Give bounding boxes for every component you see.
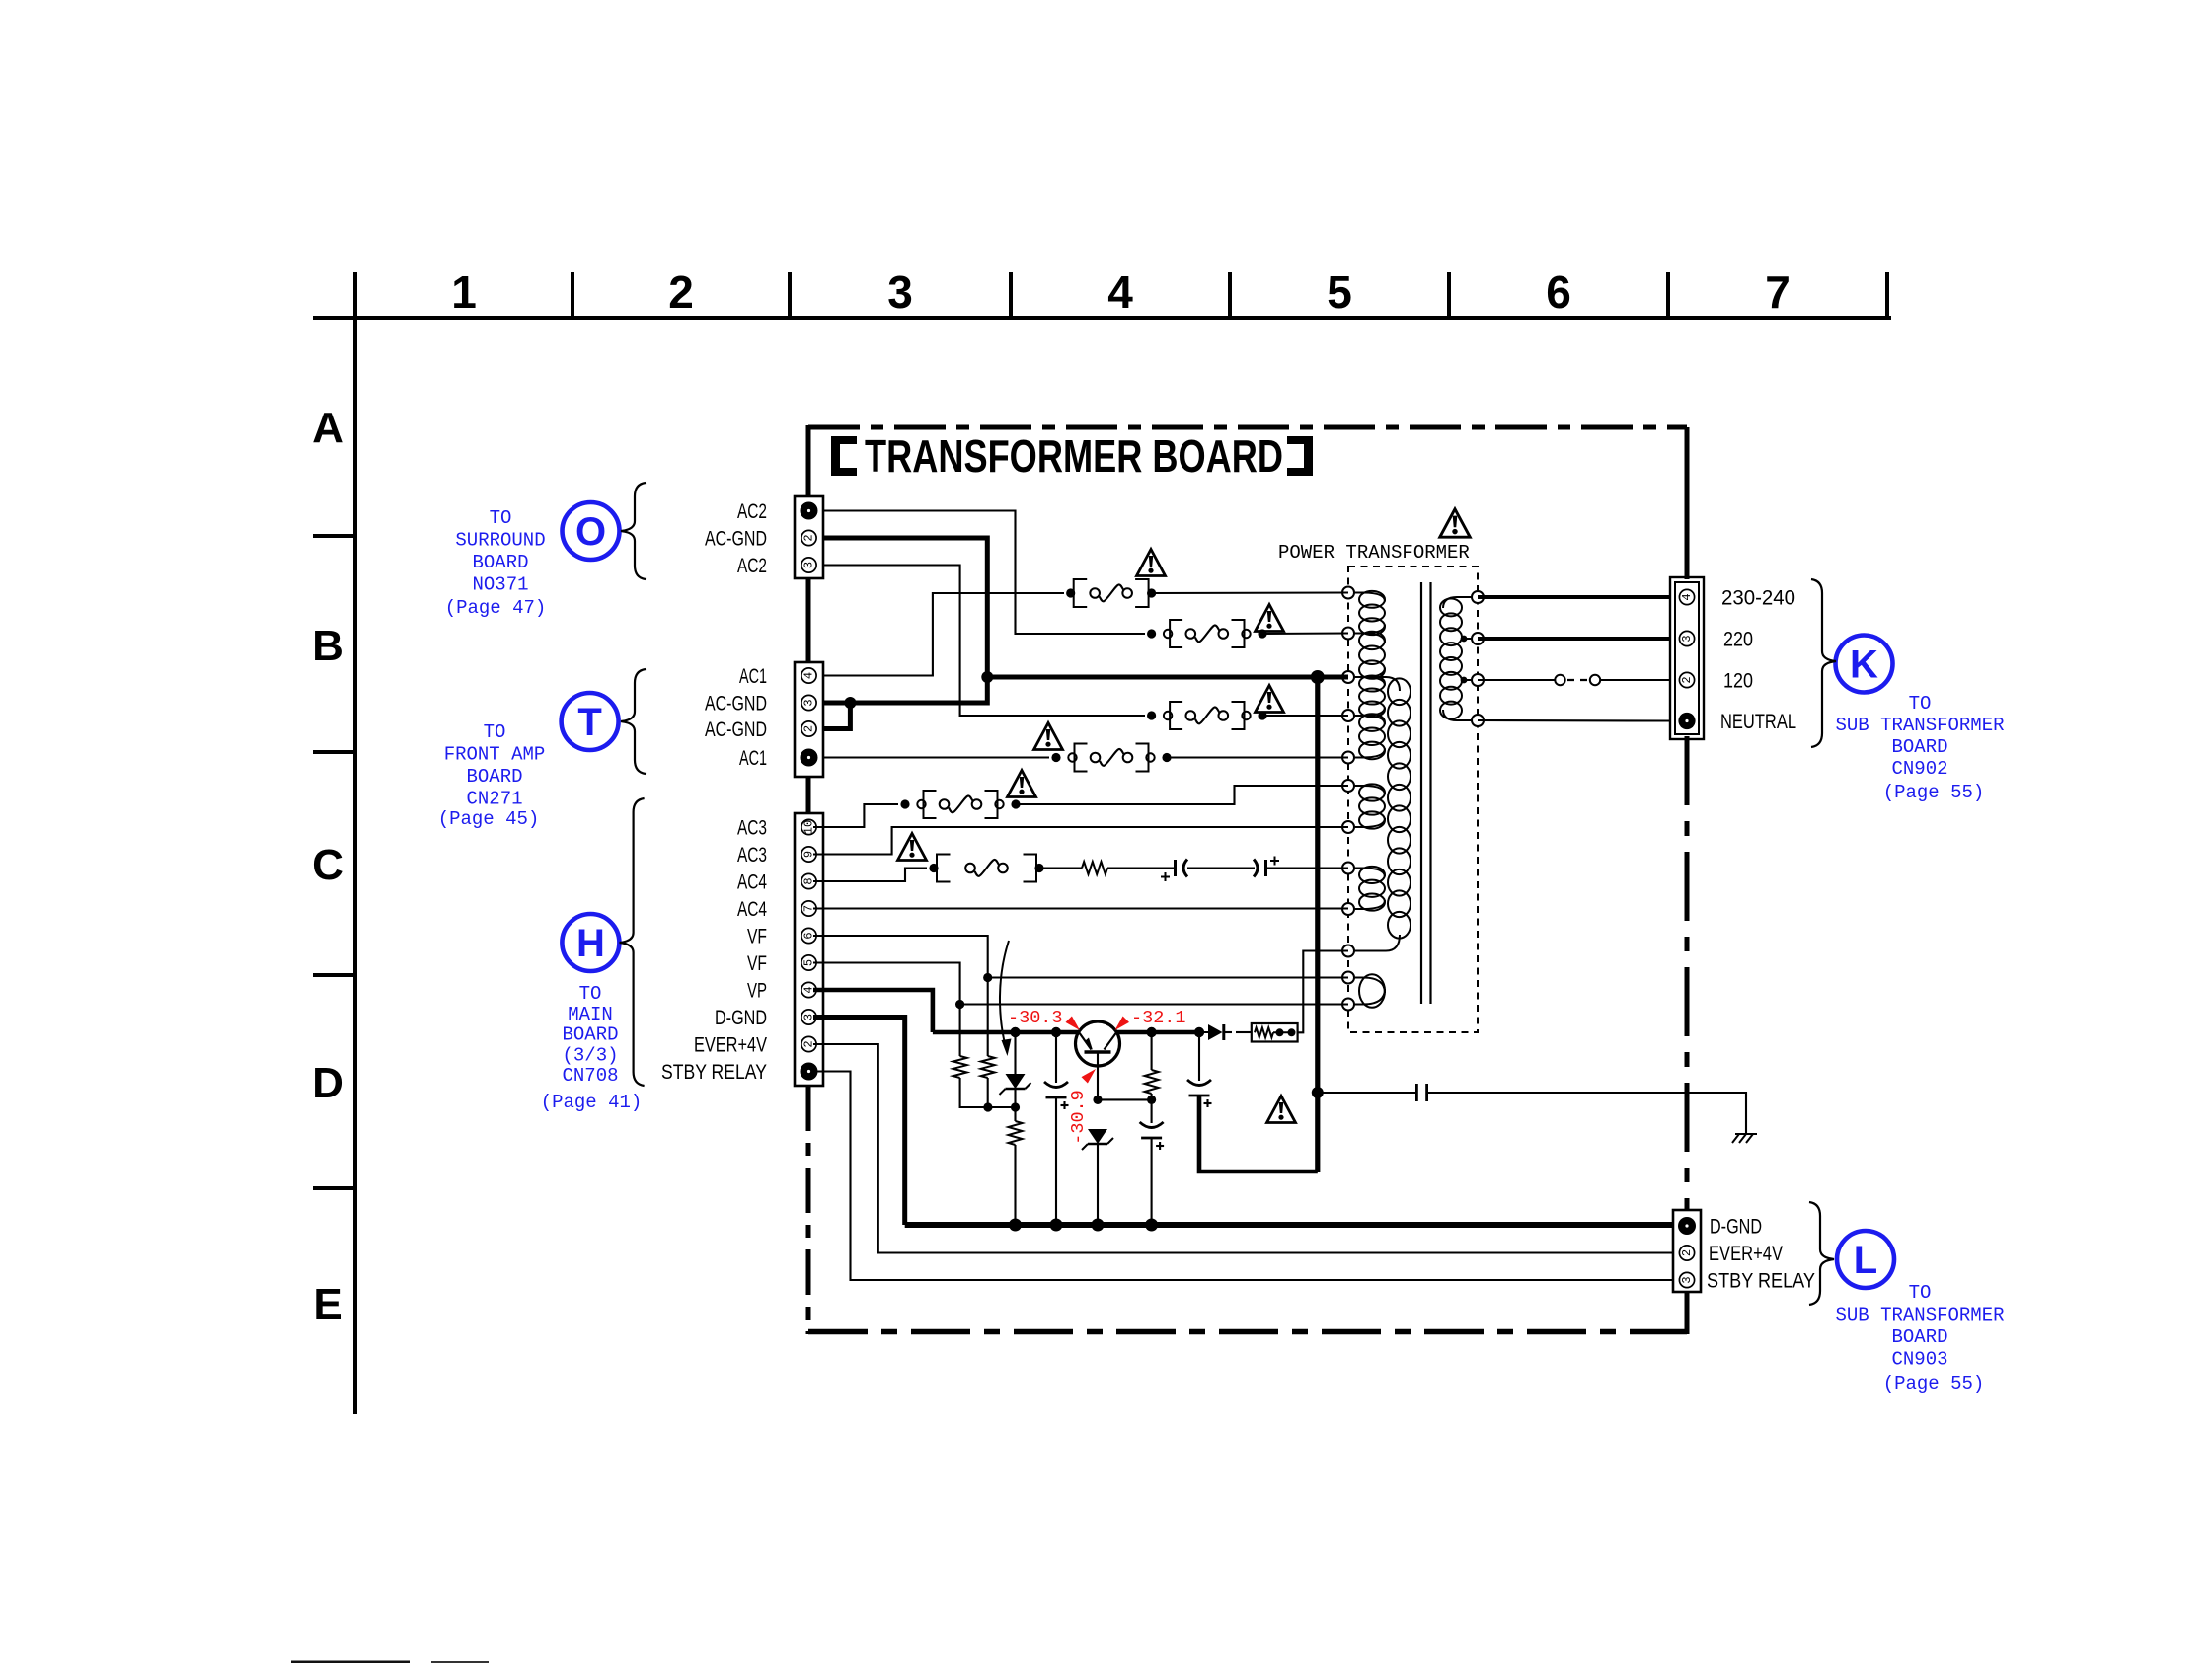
wire AC3 return from H pin 9 bbox=[813, 827, 1348, 855]
fuse F AC3 bbox=[900, 791, 1020, 818]
wire D-GND rail (thick) bbox=[905, 1222, 1673, 1228]
svg-text:D-GND: D-GND bbox=[1710, 1216, 1762, 1239]
svg-text:(Page 45): (Page 45) bbox=[438, 808, 540, 830]
connector H pin 8 bbox=[801, 873, 816, 888]
wire AC1 lower fuse to transformer pin 5 bbox=[1167, 756, 1348, 758]
svg-text:5: 5 bbox=[1327, 266, 1352, 318]
wire 120 row left bbox=[1478, 679, 1555, 681]
capacitor C AC4 left (polarized) bbox=[1161, 860, 1187, 882]
board title bracket right bbox=[1287, 436, 1313, 476]
connector H pin 5 bbox=[801, 955, 816, 970]
label (Page 47) bbox=[445, 597, 547, 619]
svg-text:120: 120 bbox=[1723, 670, 1753, 693]
svg-text:AC2: AC2 bbox=[737, 500, 767, 523]
svg-text:STBY RELAY: STBY RELAY bbox=[1707, 1270, 1815, 1293]
wire 230-240 row (thick) bbox=[1478, 595, 1670, 599]
wire VP from H pin 4 (thick) bbox=[813, 990, 933, 1032]
wire capacitor column upper bbox=[1055, 1032, 1057, 1083]
board title bracket left bbox=[831, 436, 857, 476]
svg-text:NO371: NO371 bbox=[472, 574, 528, 596]
junction AC-GND at trunk top bbox=[981, 671, 993, 683]
selector curved arrow bbox=[1000, 941, 1012, 1056]
svg-text:E: E bbox=[313, 1280, 342, 1328]
wire AC2 fuse to transformer pin 2 bbox=[1262, 632, 1348, 635]
connector T pin 2 bbox=[801, 721, 816, 736]
connector T box bbox=[795, 662, 823, 777]
red pointer at collector bbox=[1115, 1017, 1130, 1031]
resistor R AC4 series bbox=[1082, 862, 1107, 874]
wire VF lower row to transformer pin 11 bbox=[960, 1003, 1348, 1005]
svg-text:H: H bbox=[576, 922, 605, 965]
junction VP at zener column bbox=[1010, 1027, 1020, 1037]
label (Page 41) bbox=[541, 1092, 643, 1113]
svg-text:2: 2 bbox=[668, 266, 694, 318]
svg-text:2: 2 bbox=[802, 725, 816, 732]
svg-text:T: T bbox=[577, 701, 601, 744]
left connector pin labels bbox=[661, 500, 767, 1084]
warning triangle at AC4 fuse bbox=[898, 834, 927, 861]
svg-text:3: 3 bbox=[1680, 1276, 1694, 1283]
svg-text:CN903: CN903 bbox=[1891, 1349, 1947, 1371]
connector T pin 4 bbox=[801, 668, 816, 683]
svg-text:CN271: CN271 bbox=[466, 789, 522, 810]
label (Page 55) lower bbox=[1883, 1373, 1985, 1395]
svg-text:230-240: 230-240 bbox=[1721, 587, 1795, 610]
fuse F AC4 bbox=[929, 855, 1043, 882]
svg-text:(Page 55): (Page 55) bbox=[1883, 1373, 1985, 1395]
connector L pin 1 bbox=[1678, 1217, 1696, 1235]
board outline right edge middle dashed segment bbox=[1685, 736, 1690, 1210]
junction VP at capacitor column bbox=[1051, 1027, 1061, 1037]
wire AC1 from T pin 4 to fuse bbox=[823, 593, 1064, 676]
board outline bottom edge bbox=[808, 1329, 1687, 1335]
brace for connector L bbox=[1809, 1202, 1834, 1305]
svg-text:AC1: AC1 bbox=[739, 665, 767, 688]
svg-text:C: C bbox=[312, 841, 343, 889]
connector K pin 1 bbox=[1678, 713, 1695, 729]
svg-text:STBY RELAY: STBY RELAY bbox=[661, 1061, 767, 1084]
wire AC4 capacitor to transformer pin 8 bbox=[1266, 867, 1349, 869]
fuse F AC2 lower row bbox=[1147, 702, 1267, 729]
resistor R base bleed bbox=[1145, 1032, 1159, 1099]
connector H pin 2 bbox=[801, 1036, 816, 1051]
wire base zener to ground rail bbox=[1097, 1144, 1099, 1225]
capacitor C AC4 right (polarized) bbox=[1254, 857, 1279, 877]
connector H pin 1 bbox=[801, 1063, 818, 1081]
junction T pin3 branch bbox=[844, 697, 856, 709]
svg-text:MAIN: MAIN bbox=[568, 1004, 613, 1025]
board outline right edge upper segment bbox=[1685, 427, 1690, 579]
fuse F AC1 lower row bbox=[1051, 744, 1171, 772]
svg-text:6: 6 bbox=[1546, 266, 1571, 318]
label TO MAIN BOARD (3/3) CN708 bbox=[562, 983, 618, 1087]
wire VP rail (thick) bbox=[933, 1030, 1199, 1035]
svg-text:-30.9: -30.9 bbox=[1068, 1090, 1089, 1145]
svg-text:-32.1: -32.1 bbox=[1131, 1008, 1186, 1028]
junction divider link right bbox=[1011, 1102, 1020, 1111]
wire AC-GND from O pin 2 (thick) bbox=[823, 538, 987, 677]
junction divider link left bbox=[983, 1102, 992, 1111]
svg-text:O: O bbox=[575, 510, 606, 554]
wire AC3 fuse to transformer pin 6 bbox=[1016, 786, 1348, 804]
junction AC-GND at transformer (big) bbox=[1311, 670, 1325, 684]
svg-text:-30.3: -30.3 bbox=[1008, 1008, 1063, 1028]
svg-text:AC-GND: AC-GND bbox=[705, 718, 767, 741]
svg-text:BOARD: BOARD bbox=[466, 766, 522, 788]
wire STBY RELAY from H pin 1 bbox=[813, 1072, 1673, 1281]
connector L box bbox=[1673, 1210, 1701, 1292]
connector H pin 10 bbox=[801, 819, 816, 834]
junction D-GND at base zener bbox=[1092, 1219, 1105, 1232]
capacitor C base (polarized) bbox=[1140, 1099, 1165, 1150]
wire line capacitor to chassis ground bbox=[1427, 1093, 1746, 1134]
wire AC3 from H pin 10 to fuse bbox=[813, 804, 898, 827]
wire VF from H pin 5 bbox=[813, 963, 960, 1005]
board title TRANSFORMER BOARD bbox=[865, 430, 1283, 482]
connector H pin 7 bbox=[801, 901, 816, 916]
svg-text:(3/3): (3/3) bbox=[562, 1044, 618, 1066]
power transformer secondary tap 120 bbox=[1461, 677, 1478, 684]
svg-text:3: 3 bbox=[1680, 635, 1694, 642]
node T circle bbox=[562, 693, 619, 750]
board outline top edge bbox=[808, 425, 1687, 430]
junction base link right bbox=[1147, 1096, 1156, 1104]
svg-text:NEUTRAL: NEUTRAL bbox=[1720, 711, 1796, 733]
connector K inner box bbox=[1675, 582, 1699, 734]
svg-text:TO: TO bbox=[1909, 693, 1932, 715]
zener diode ZD base (-30.9) bbox=[1082, 1129, 1113, 1150]
svg-text:2: 2 bbox=[802, 534, 816, 541]
svg-text:AC4: AC4 bbox=[737, 898, 767, 921]
connector O pin 3 bbox=[801, 558, 816, 572]
connector O box bbox=[795, 496, 823, 578]
label TO FRONT AMP BOARD CN271 bbox=[444, 721, 546, 810]
brace for connector H bbox=[620, 798, 645, 1086]
brace for connector O bbox=[621, 483, 646, 579]
voltage label -30.9 (red, vertical) bbox=[1068, 1090, 1089, 1145]
wire base capacitor to ground rail bbox=[1151, 1137, 1153, 1225]
warning triangle at AC1 upper fuse bbox=[1137, 550, 1166, 576]
svg-text:TO: TO bbox=[490, 507, 512, 529]
wire VF from H pin 6 bbox=[813, 936, 988, 978]
connector K pin 2 bbox=[1679, 672, 1694, 687]
wire trunk to line capacitor bbox=[1318, 1092, 1415, 1094]
label TO SURROUND BOARD NO371 bbox=[455, 507, 545, 596]
wire AC1 from T pin 1 to fuse bbox=[823, 756, 1049, 758]
capacitor C line-to-chassis bbox=[1416, 1084, 1426, 1101]
svg-text:2: 2 bbox=[1680, 676, 1694, 683]
wire AC-GND common row (thick) bbox=[987, 675, 1348, 680]
svg-text:TRANSFORMER BOARD: TRANSFORMER BOARD bbox=[865, 430, 1283, 482]
svg-text:VF: VF bbox=[747, 926, 767, 948]
wire AC2 lower fuse to transformer pin 4 bbox=[1262, 715, 1348, 717]
wire AC4 between capacitors bbox=[1187, 867, 1255, 869]
wire zener column upper bbox=[1014, 1032, 1016, 1074]
svg-text:K: K bbox=[1850, 643, 1878, 687]
power transformer secondary pins bbox=[1472, 591, 1484, 726]
warning triangle at AC3 fuse bbox=[1008, 771, 1036, 797]
svg-text:(Page 47): (Page 47) bbox=[445, 597, 547, 619]
svg-text:CN902: CN902 bbox=[1891, 758, 1947, 780]
svg-text:220: 220 bbox=[1723, 629, 1753, 651]
wire AC2 from O pin 3 to fuse bbox=[823, 566, 1145, 717]
chassis ground symbol bbox=[1732, 1134, 1757, 1143]
label (Page 45) bbox=[438, 808, 540, 830]
power transformer dashed box bbox=[1348, 567, 1478, 1032]
connector H pin 4 bbox=[801, 982, 816, 997]
svg-text:BOARD: BOARD bbox=[472, 552, 528, 573]
junction VP at output capacitor column bbox=[1194, 1027, 1204, 1037]
wire 220 row (thick) bbox=[1478, 637, 1670, 641]
svg-text:AC-GND: AC-GND bbox=[705, 528, 767, 551]
zener diode ZD upper bbox=[1000, 1074, 1031, 1095]
node H circle bbox=[562, 914, 619, 971]
svg-text:AC3: AC3 bbox=[737, 844, 767, 867]
wire NEUTRAL row bbox=[1478, 719, 1670, 722]
svg-text:AC4: AC4 bbox=[737, 871, 767, 894]
power transformer secondary tap 220 bbox=[1461, 636, 1478, 643]
wire AC4 resistor to capacitor bbox=[1107, 867, 1176, 869]
grid row letters A-E bbox=[312, 404, 343, 1328]
fuse F AC1 upper row bbox=[1066, 579, 1156, 607]
svg-text:B: B bbox=[312, 622, 343, 670]
wire AC-GND from T pin 3 (thick) bbox=[823, 677, 987, 703]
connector H pin 6 bbox=[801, 928, 816, 943]
node K circle bbox=[1836, 636, 1893, 693]
svg-text:POWER TRANSFORMER: POWER TRANSFORMER bbox=[1278, 542, 1470, 564]
wire AC-GND branch to T pin 2 (thick) bbox=[823, 703, 850, 729]
connector H pin 9 bbox=[801, 847, 816, 862]
svg-text:TO: TO bbox=[484, 721, 506, 743]
L connector pin labels bbox=[1707, 1216, 1815, 1293]
svg-text:D: D bbox=[312, 1059, 343, 1107]
wire AC1 upper fuse to transformer pin 1 bbox=[1152, 591, 1348, 594]
wire AC4 fuse to resistor bbox=[1039, 867, 1082, 869]
power transformer primary winding inner bbox=[1348, 677, 1411, 951]
grid column numbers 1-7 bbox=[451, 266, 1791, 318]
warning triangle at AC1 lower fuse bbox=[1034, 723, 1063, 750]
svg-text:SUB TRANSFORMER: SUB TRANSFORMER bbox=[1835, 715, 2004, 736]
junction D-GND at capacitor column bbox=[1050, 1219, 1063, 1232]
junction VF upper bbox=[983, 973, 992, 982]
connector O pin 1 bbox=[801, 502, 818, 520]
grid ruler column ticks bbox=[572, 272, 1887, 318]
svg-text:D-GND: D-GND bbox=[715, 1007, 767, 1029]
svg-text:EVER+4V: EVER+4V bbox=[1709, 1243, 1783, 1265]
resistor R divider B bbox=[981, 978, 995, 1108]
capacitor C output (polarized) bbox=[1187, 1080, 1212, 1107]
wire AC2 from O pin 1 to fuse bbox=[823, 511, 1145, 635]
wire diode to relay box bbox=[1236, 1031, 1252, 1033]
power transformer secondary winding bbox=[1440, 597, 1478, 720]
wire capacitor column lower bbox=[1055, 1096, 1057, 1225]
svg-text:AC2: AC2 bbox=[737, 555, 767, 577]
wire relay box to transformer pin (VP return) bbox=[1298, 951, 1348, 1033]
power transformer primary windings outer bbox=[1348, 591, 1385, 1008]
svg-text:A: A bbox=[312, 404, 343, 452]
junction VF lower bbox=[955, 1000, 964, 1009]
label (Page 55) upper bbox=[1883, 782, 1985, 803]
svg-text:VF: VF bbox=[747, 952, 767, 975]
svg-text:4: 4 bbox=[1680, 593, 1694, 600]
board outline right edge bottom segment bbox=[1685, 1292, 1690, 1334]
svg-text:4: 4 bbox=[1107, 266, 1133, 318]
svg-text:TO: TO bbox=[1909, 1282, 1932, 1304]
connector T pin 3 bbox=[801, 695, 816, 710]
svg-text:3: 3 bbox=[802, 562, 816, 568]
warning triangle near trunk bbox=[1267, 1096, 1296, 1123]
wire output capacitor upper bbox=[1198, 1032, 1200, 1081]
node O circle bbox=[563, 502, 620, 560]
switch voltage selector bbox=[1555, 675, 1600, 685]
board outline left edge upper segments bbox=[806, 425, 811, 813]
junction D-GND at base capacitor bbox=[1145, 1219, 1158, 1232]
fuse F AC2 upper row bbox=[1147, 620, 1267, 647]
connector H pin 3 bbox=[801, 1010, 816, 1024]
svg-text:SURROUND: SURROUND bbox=[455, 530, 545, 552]
wire divider link bbox=[988, 1106, 1016, 1108]
svg-text:L: L bbox=[1854, 1239, 1877, 1282]
node L circle bbox=[1837, 1231, 1894, 1288]
connector O pin 2 bbox=[801, 530, 816, 545]
grid ruler top line bbox=[313, 316, 1891, 320]
wire AC4 from H pin 8 to fuse bbox=[813, 869, 927, 882]
junction transistor base link left bbox=[1093, 1096, 1102, 1104]
voltage label -30.3 (red) bbox=[1008, 1008, 1063, 1028]
svg-text:4: 4 bbox=[802, 672, 816, 679]
power transformer label bbox=[1278, 542, 1470, 564]
connector K outer box bbox=[1670, 577, 1704, 739]
svg-text:FRONT AMP: FRONT AMP bbox=[444, 744, 546, 766]
svg-text:7: 7 bbox=[1765, 266, 1791, 318]
svg-text:CN708: CN708 bbox=[562, 1065, 618, 1087]
voltage label -32.1 (red) bbox=[1131, 1008, 1186, 1028]
wire AC4 return from H pin 7 bbox=[813, 907, 1348, 909]
connector L pin 3 bbox=[1679, 1272, 1694, 1287]
svg-text:3: 3 bbox=[887, 266, 913, 318]
svg-text:1: 1 bbox=[451, 266, 477, 318]
wire base link bbox=[1098, 1098, 1152, 1100]
svg-text:SUB TRANSFORMER: SUB TRANSFORMER bbox=[1835, 1305, 2004, 1326]
transistor Q regulator bbox=[1076, 1021, 1120, 1099]
red pointer at base bbox=[1082, 1069, 1097, 1084]
K connector voltage labels bbox=[1720, 587, 1796, 734]
resistor R divider A bbox=[953, 1005, 988, 1108]
brace for connector K bbox=[1811, 579, 1836, 747]
wire output capacitor to AC-GND trunk (thick) bbox=[1199, 1095, 1318, 1172]
svg-text:BOARD: BOARD bbox=[1891, 1326, 1947, 1348]
svg-text:BOARD: BOARD bbox=[562, 1024, 618, 1046]
diode D series bbox=[1208, 1024, 1232, 1040]
svg-text:(Page 55): (Page 55) bbox=[1883, 782, 1985, 803]
brace for connector T bbox=[621, 669, 646, 774]
svg-text:BOARD: BOARD bbox=[1891, 736, 1947, 758]
svg-text:2: 2 bbox=[1680, 1249, 1694, 1256]
wire 120 row right bbox=[1600, 679, 1670, 681]
svg-text:EVER+4V: EVER+4V bbox=[694, 1034, 767, 1057]
svg-text:AC-GND: AC-GND bbox=[705, 693, 767, 716]
wire zener column middle bbox=[1014, 1089, 1016, 1107]
footer artifact bbox=[291, 1661, 489, 1663]
warning triangle at AC2 lower fuse bbox=[1256, 686, 1284, 713]
svg-text:VP: VP bbox=[747, 980, 767, 1003]
relay RY contact dots bbox=[1273, 1028, 1296, 1036]
relay RY box bbox=[1252, 1023, 1298, 1042]
connector L pin 2 bbox=[1679, 1246, 1694, 1260]
warning triangle above power transformer bbox=[1440, 509, 1470, 537]
grid ruler row ticks bbox=[313, 536, 355, 1188]
connector K pin 3 bbox=[1679, 631, 1694, 645]
board outline left edge lower dashed segment bbox=[806, 1086, 811, 1334]
junction D-GND at zener column bbox=[1009, 1219, 1022, 1232]
grid ruler left line bbox=[353, 272, 357, 1414]
junction trunk at capacitor row bbox=[1312, 1087, 1324, 1098]
svg-text:TO: TO bbox=[579, 983, 602, 1005]
wire D-GND from H pin 3 (thick) bbox=[813, 1018, 905, 1226]
wire VF upper row to transformer pin 10 bbox=[988, 976, 1348, 978]
connector H box bbox=[795, 813, 823, 1086]
wire VP rail to diode bbox=[1199, 1031, 1208, 1033]
svg-text:3: 3 bbox=[802, 699, 816, 706]
wire AC-GND trunk (thick) bbox=[1315, 677, 1320, 1172]
wire EVER+4V from H pin 2 bbox=[813, 1044, 1673, 1253]
svg-text:AC1: AC1 bbox=[739, 747, 767, 770]
capacitor C filter A (polarized) bbox=[1044, 1082, 1069, 1109]
svg-text:(Page 41): (Page 41) bbox=[541, 1092, 643, 1113]
connector K pin 4 bbox=[1679, 589, 1694, 604]
power transformer primary pins bbox=[1342, 587, 1354, 1011]
junction VP at resistor column bbox=[1146, 1027, 1156, 1037]
power transformer core bbox=[1421, 582, 1431, 1004]
svg-text:AC3: AC3 bbox=[737, 817, 767, 840]
label TO SUB TRANSFORMER BOARD CN903 bbox=[1835, 1282, 2004, 1371]
red pointer at emitter bbox=[1066, 1017, 1081, 1031]
resistor R zener column bbox=[1009, 1107, 1023, 1225]
connector T pin 1 bbox=[801, 749, 818, 767]
warning triangle at AC2 fuse bbox=[1256, 605, 1284, 632]
label TO SUB TRANSFORMER BOARD CN902 bbox=[1835, 693, 2004, 780]
relay RY coil resistor bbox=[1255, 1027, 1273, 1037]
